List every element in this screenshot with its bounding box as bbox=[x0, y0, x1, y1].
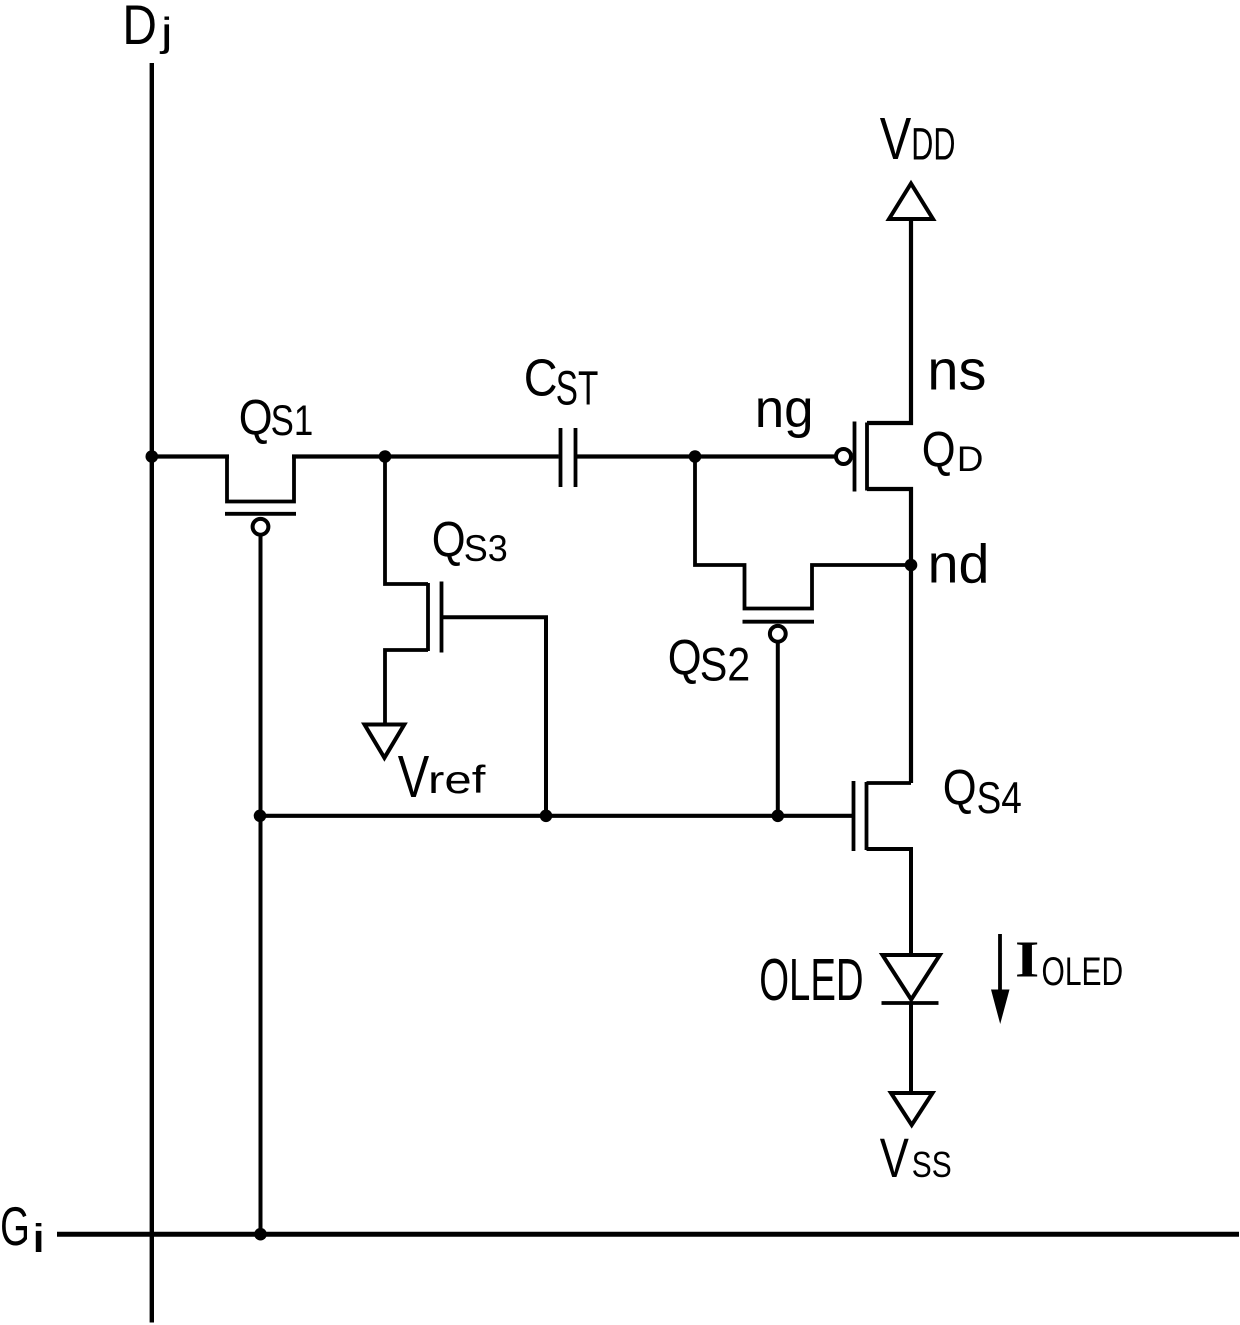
svg-text:OLED: OLED bbox=[1042, 950, 1124, 994]
svg-text:ns: ns bbox=[927, 338, 986, 402]
svg-text:S2: S2 bbox=[700, 639, 751, 691]
svg-text:j: j bbox=[159, 9, 173, 54]
svg-text:S1: S1 bbox=[271, 398, 314, 445]
svg-text:Q: Q bbox=[239, 390, 273, 445]
svg-text:Q: Q bbox=[922, 422, 956, 477]
svg-text:D: D bbox=[957, 440, 984, 479]
svg-text:V: V bbox=[880, 107, 912, 172]
svg-text:DD: DD bbox=[911, 120, 955, 170]
svg-text:C: C bbox=[524, 349, 558, 407]
svg-text:S3: S3 bbox=[464, 527, 508, 569]
svg-text:Q: Q bbox=[943, 760, 977, 815]
svg-text:nd: nd bbox=[928, 533, 990, 594]
svg-text:i: i bbox=[32, 1217, 46, 1261]
svg-text:Q: Q bbox=[432, 512, 466, 567]
svg-text:V: V bbox=[880, 1127, 910, 1189]
svg-text:SS: SS bbox=[912, 1145, 952, 1185]
svg-text:ref: ref bbox=[428, 759, 486, 802]
svg-text:I: I bbox=[1015, 931, 1039, 988]
svg-text:S4: S4 bbox=[977, 773, 1022, 823]
svg-text:ng: ng bbox=[755, 380, 814, 440]
svg-text:V: V bbox=[398, 745, 430, 810]
svg-text:Q: Q bbox=[668, 630, 702, 685]
svg-text:ST: ST bbox=[556, 360, 599, 415]
svg-text:OLED: OLED bbox=[759, 947, 863, 1013]
svg-text:D: D bbox=[122, 0, 157, 57]
svg-text:G: G bbox=[0, 1196, 30, 1258]
